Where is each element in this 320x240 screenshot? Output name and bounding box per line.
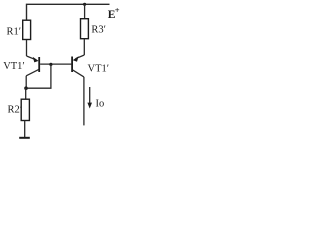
svg-text:R2′: R2′ [8,105,23,116]
svg-text:+: + [115,5,120,15]
svg-text:Io: Io [96,99,105,110]
wire from rail down to R3 [84,4,86,18]
transistor VT1' right collector diagonal [72,70,84,77]
wire left collector down to node [25,76,27,88]
arrow Io current direction [89,87,91,104]
svg-text:R3′: R3′ [91,25,106,36]
node junction dot above R2 [24,86,28,90]
svg-text:R1′: R1′ [7,27,22,38]
wire output (right collector down) [83,77,85,126]
resistor R1' [23,20,31,39]
wire base link between transistors [40,63,71,65]
wire top supply rail [27,4,110,19]
wire R1 bottom to left emitter bend [26,40,28,56]
transistor VT1' left collector diagonal [26,69,39,75]
svg-text:VT1′: VT1′ [88,64,110,75]
wire node to R2 top [25,88,27,99]
wire R2 bottom to ground [24,121,26,138]
transistor VT1' left emitter diagonal with arrow (PNP) [27,56,37,60]
wire diode-connection jog (base dot down, left to collector node) [26,64,51,88]
resistor R2' [21,99,29,120]
svg-text:VT1′: VT1′ [3,61,25,72]
ground [19,137,30,139]
transistor VT1' right base bar [71,57,73,73]
node junction dot on top rail [83,3,86,6]
transistor VT1' right emitter diagonal with arrow (PNP) [76,55,85,59]
node junction dot on base wire [49,63,52,66]
transistor VT1' left base bar [38,57,40,72]
resistor R3' [81,19,89,39]
wire R3 bottom to right emitter bend [83,39,85,55]
